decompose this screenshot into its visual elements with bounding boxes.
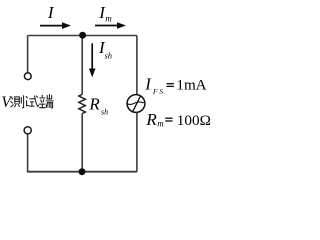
hanzi 试 (hand-drawn strokes) xyxy=(26,96,38,107)
svg-text:sh: sh xyxy=(101,107,108,116)
meter M1 needle xyxy=(132,96,140,113)
svg-text:1mA: 1mA xyxy=(176,78,206,94)
resistor R_sh zigzag xyxy=(79,94,86,113)
svg-text:R: R xyxy=(88,95,100,114)
meter M1 scale wave xyxy=(127,102,145,105)
meter M1 galvanometer body xyxy=(127,95,145,113)
current arrow Ish (down) xyxy=(89,43,96,77)
junction node A (top) xyxy=(79,32,86,39)
wire: left vertical upper xyxy=(27,36,29,73)
svg-text:I: I xyxy=(144,74,152,93)
wire: right vertical upper (to meter) xyxy=(136,36,138,95)
terminal circle: V test - xyxy=(24,127,31,134)
wire: right vertical lower (meter to bottom) xyxy=(136,112,138,171)
wire: middle vertical lower (resistor to node B) xyxy=(81,114,83,172)
wire: middle vertical upper (node A to resistor) xyxy=(81,36,83,95)
hanzi 端 (hand-drawn strokes) xyxy=(39,95,53,109)
wire: left vertical lower xyxy=(27,134,29,172)
current arrow Im (top-right) xyxy=(95,22,126,29)
terminal circle: V test + xyxy=(24,73,31,80)
svg-text:R: R xyxy=(145,110,157,129)
current arrow I (top-left) xyxy=(40,22,71,29)
junction node B (bottom) xyxy=(79,168,86,175)
svg-text:m: m xyxy=(105,14,112,24)
svg-text:I: I xyxy=(47,3,55,22)
wire: bottom horizontal xyxy=(27,171,137,173)
svg-text:sh: sh xyxy=(105,51,113,61)
svg-text:100Ω: 100Ω xyxy=(177,112,211,129)
hanzi 测 (hand-drawn strokes) xyxy=(11,96,24,108)
svg-text:m: m xyxy=(157,118,164,128)
svg-text:FS: FS xyxy=(152,88,165,96)
wire: top horizontal xyxy=(28,35,137,37)
svg-text:V: V xyxy=(1,94,12,111)
